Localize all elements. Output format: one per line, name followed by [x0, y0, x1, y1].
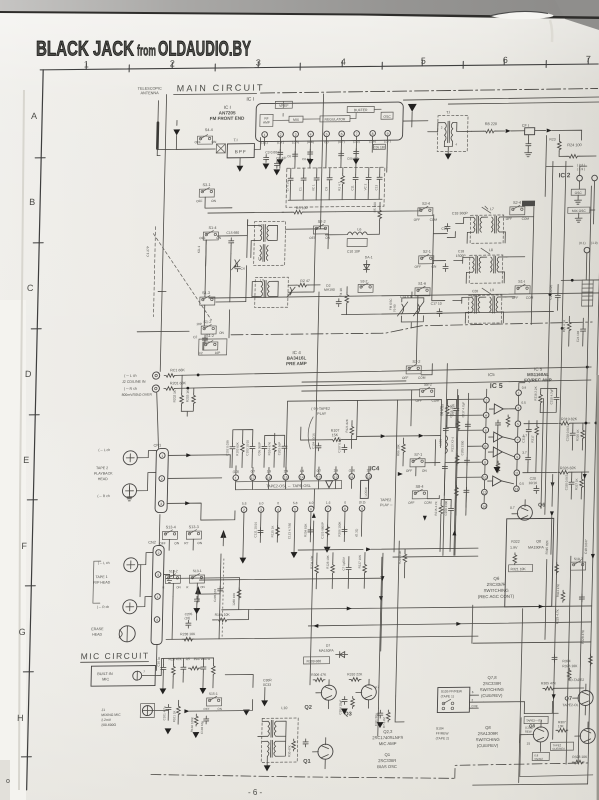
- svg-text:17: 17: [251, 476, 255, 480]
- svg-text:R96 10K: R96 10K: [396, 444, 400, 456]
- svg-text:R24 100: R24 100: [567, 143, 581, 147]
- svg-text:(0.31): (0.31): [354, 529, 358, 537]
- svg-text:TAPE2---IT3: TAPE2---IT3: [526, 718, 542, 722]
- dark page top edge: [0, 11, 599, 19]
- pin 8: [370, 131, 376, 137]
- wire CN1 to IC4: [167, 455, 236, 521]
- left ruler ticks + letters: [21, 158, 45, 757]
- svg-text:R8 220: R8 220: [485, 122, 497, 126]
- svg-text:Q1: Q1: [303, 759, 311, 765]
- svg-text:3: 3: [160, 502, 162, 506]
- wire L bus: [246, 220, 248, 302]
- svg-text:5: 5: [326, 132, 328, 136]
- svg-text:R310 22K: R310 22K: [347, 672, 363, 676]
- bold arrow up B: [220, 530, 226, 538]
- pin 6: [339, 131, 345, 137]
- svg-text:J1: J1: [101, 708, 105, 712]
- svg-text:2: 2: [170, 58, 175, 68]
- svg-text:4: 4: [156, 618, 158, 622]
- pin IC2 lower: [584, 247, 590, 253]
- svg-text:1: 1: [157, 595, 159, 599]
- svg-text:C320 0.047: C320 0.047: [564, 474, 568, 490]
- component cluster above IC4 row1: [225, 429, 287, 468]
- svg-text:R238 10K: R238 10K: [180, 632, 196, 636]
- svg-text:R234 10K: R234 10K: [310, 556, 314, 569]
- left column of IC5 inputs: [436, 363, 484, 555]
- svg-text:14: 14: [482, 505, 486, 509]
- svg-text:Q2,3: Q2,3: [383, 729, 393, 734]
- svg-text:C310 4.7µF: C310 4.7µF: [549, 388, 553, 404]
- cluster below row2: [239, 511, 362, 563]
- svg-text:ON: ON: [174, 541, 180, 545]
- svg-text:15K: 15K: [332, 433, 339, 437]
- svg-text:( 9 )-TAPE2: ( 9 )-TAPE2: [311, 407, 330, 411]
- svg-text:ON: ON: [176, 585, 181, 589]
- wire L-ch rail: [176, 367, 591, 375]
- svg-text:(TAPE 1): (TAPE 1): [441, 694, 454, 698]
- svg-text:ON: ON: [200, 585, 205, 589]
- extra arrows right rails: [552, 694, 556, 699]
- svg-text:OFF: OFF: [199, 236, 206, 240]
- svg-text:3: 3: [295, 133, 297, 137]
- svg-text:2.2mV: 2.2mV: [101, 718, 112, 722]
- enclosure around tape2 cue block: [520, 717, 594, 777]
- svg-text:AN7205: AN7205: [219, 110, 236, 115]
- svg-text:ANTENNA: ANTENNA: [141, 91, 160, 95]
- svg-text:R215 4.7K: R215 4.7K: [434, 501, 438, 515]
- svg-text:FF/REW: FF/REW: [436, 731, 450, 735]
- rail verticals: [378, 539, 547, 708]
- ground G1: [173, 129, 180, 135]
- svg-text:C311 50µ: C311 50µ: [374, 713, 378, 726]
- left band cluster y560-640: [172, 554, 242, 640]
- svg-text:13: 13: [515, 487, 519, 491]
- svg-text:OFF: OFF: [203, 707, 209, 711]
- svg-text:R?: R?: [184, 541, 188, 545]
- svg-text:HEAD: HEAD: [92, 633, 102, 637]
- svg-text:R320 1K: R320 1K: [576, 429, 580, 441]
- svg-text:SWITCHING: SWITCHING: [483, 588, 509, 593]
- svg-text:VREF: VREF: [279, 104, 289, 108]
- internal resistors: [506, 415, 510, 427]
- svg-text:IC I: IC I: [224, 105, 231, 110]
- svg-text:0.5: 0.5: [521, 401, 526, 405]
- pin stubs above IC5: [487, 383, 525, 397]
- svg-text:R203 1K: R203 1K: [186, 389, 190, 402]
- pin 2: [278, 131, 284, 137]
- svg-text:(REC AGC CONT): (REC AGC CONT): [478, 594, 515, 599]
- svg-text:R319 82K: R319 82K: [561, 417, 578, 421]
- SEC4: line-in band: [120, 322, 592, 476]
- svg-text:S2-2: S2-2: [318, 220, 326, 224]
- svg-text:800mV/50kΩ OVER: 800mV/50kΩ OVER: [122, 393, 153, 397]
- svg-text:C116 100: C116 100: [449, 404, 453, 417]
- svg-text:7: 7: [327, 507, 329, 511]
- svg-text:11: 11: [515, 471, 519, 475]
- J1 input network: [162, 700, 217, 739]
- OSC box IC2: [571, 189, 585, 195]
- telescopic antenna: [157, 101, 160, 123]
- main B+ vertical rail: [310, 94, 324, 685]
- svg-text:from: from: [137, 43, 156, 60]
- svg-text:R104 47K: R104 47K: [267, 442, 271, 455]
- trimmer CT6: [232, 260, 240, 270]
- svg-text:MIC: MIC: [102, 677, 109, 681]
- svg-text:8: 8: [372, 132, 374, 136]
- pin stub wires: [264, 136, 388, 168]
- svg-text:C7 0.01: C7 0.01: [285, 180, 289, 191]
- arrows down rail: [550, 482, 554, 487]
- svg-text:C1 27P: C1 27P: [146, 246, 150, 257]
- svg-text:6.0: 6.0: [309, 501, 314, 505]
- svg-text:(1.9): (1.9): [591, 241, 598, 245]
- wire IF row3: [432, 260, 463, 300]
- svg-text:C2: C2: [193, 335, 198, 339]
- svg-text:OFF: OFF: [196, 199, 203, 203]
- svg-text:IC I: IC I: [246, 97, 254, 103]
- svg-text:1.6: 1.6: [326, 501, 331, 505]
- vertical risers centre: [394, 295, 460, 556]
- svg-text:L7: L7: [490, 207, 494, 211]
- svg-text:IC 2: IC 2: [559, 172, 571, 179]
- svg-text:R3 100: R3 100: [296, 206, 308, 210]
- BPF box: [227, 144, 254, 158]
- svg-text:IC4: IC4: [370, 466, 380, 472]
- long vertical rails right side: [545, 161, 553, 514]
- svg-text:13: 13: [317, 475, 321, 479]
- schematic boundary chain line: [261, 89, 598, 94]
- svg-text:R23: R23: [549, 137, 555, 141]
- svg-text:TAPE2: TAPE2: [380, 498, 391, 502]
- svg-text:S2-1: S2-1: [423, 250, 431, 254]
- svg-text:OFF: OFF: [512, 296, 519, 300]
- svg-text:S7-1: S7-1: [414, 453, 422, 457]
- svg-text:COM: COM: [522, 217, 530, 221]
- svg-text:0: 0: [344, 501, 346, 505]
- svg-text:( 1.9 ): ( 1.9 ): [577, 167, 585, 171]
- svg-text:Q8: Q8: [485, 725, 491, 730]
- svg-text:R202 1K: R202 1K: [173, 389, 177, 402]
- svg-text:11: 11: [350, 475, 354, 479]
- svg-text:1: 1: [84, 59, 89, 69]
- svg-text:C18 360P: C18 360P: [452, 211, 469, 215]
- tape2 osc rail going left: [378, 696, 405, 736]
- svg-text:6: 6: [310, 507, 312, 511]
- vertical rail bottom right: [519, 609, 523, 783]
- wire IF row2: [433, 259, 463, 261]
- svg-text:14: 14: [300, 476, 304, 480]
- svg-text:G: G: [19, 627, 26, 637]
- label Q8 switching: [475, 725, 499, 748]
- SEC2: T1 / CF1 / IC2 row: [401, 97, 599, 226]
- svg-text:S13-4: S13-4: [166, 525, 176, 529]
- svg-text:7: 7: [356, 132, 358, 136]
- svg-text:L9: L9: [490, 288, 494, 292]
- IC1 package outline: [255, 102, 403, 142]
- svg-text:S4-4: S4-4: [205, 128, 213, 132]
- trimmer CT2: [287, 287, 295, 297]
- svg-text:Q7: Q7: [565, 696, 573, 702]
- svg-text:A: A: [31, 111, 37, 121]
- svg-text:Q6: Q6: [538, 502, 545, 508]
- svg-text:2SA1309R: 2SA1309R: [478, 731, 498, 736]
- svg-text:15: 15: [284, 476, 288, 480]
- svg-text:C? 1µ50V: C? 1µ50V: [342, 557, 346, 570]
- left page crease: [19, 90, 24, 790]
- svg-text:C18: C18: [458, 249, 464, 253]
- svg-text:ON: ON: [211, 199, 217, 203]
- svg-text:3: 3: [260, 508, 262, 512]
- wire bottom rails: [298, 548, 363, 551]
- svg-text:( ─ R ch: ( ─ R ch: [124, 387, 137, 391]
- svg-text:MIC CIRCUIT: MIC CIRCUIT: [81, 651, 150, 662]
- op-amp A1: [494, 404, 503, 414]
- svg-text:C10: C10: [441, 227, 447, 231]
- svg-text:5: 5: [294, 508, 296, 512]
- svg-text:2SC33IIR: 2SC33IIR: [378, 758, 396, 763]
- wire FM detector rail: [209, 293, 599, 298]
- svg-text:( ─ L ch: ( ─ L ch: [124, 374, 136, 378]
- L7 primary: [473, 216, 481, 233]
- supply rails: [222, 606, 592, 610]
- svg-text:C05 180: C05 180: [347, 157, 359, 161]
- svg-text:RC1 68K: RC1 68K: [170, 368, 185, 372]
- IC4 pin stubs: [235, 464, 369, 489]
- svg-text:10: 10: [367, 475, 371, 479]
- svg-text:2: 2: [161, 477, 163, 481]
- capacitor C6: [336, 299, 341, 307]
- svg-text:( ─ R ch: ( ─ R ch: [97, 605, 110, 609]
- svg-text:R315 82K: R315 82K: [545, 539, 549, 554]
- svg-text:C313: C313: [521, 435, 525, 443]
- op-amp A4: [493, 476, 502, 486]
- boxed label TAPE2 CUE/REV: [550, 742, 573, 750]
- svg-text:8: 8: [484, 461, 486, 465]
- svg-text:1: 1: [518, 391, 520, 395]
- svg-text:DA-1: DA-1: [365, 255, 373, 259]
- bias cluster between Q2 Q3: [338, 696, 391, 729]
- svg-text:2: 2: [243, 508, 245, 512]
- IC2 hatched block: [582, 280, 594, 306]
- svg-text:R321 10K: R321 10K: [511, 567, 527, 571]
- svg-text:MIC AMP: MIC AMP: [379, 741, 397, 746]
- label Q2,3 mic amp: [372, 729, 404, 746]
- svg-text:3.7: 3.7: [522, 451, 527, 455]
- svg-text:REGULATOR: REGULATOR: [325, 117, 346, 121]
- transistor Q9 edge: [580, 728, 595, 743]
- svg-text:CN2: CN2: [148, 541, 156, 545]
- BUFFER box: [347, 106, 374, 112]
- RF AMP box: [260, 114, 273, 126]
- svg-text:R30 47K: R30 47K: [287, 745, 291, 757]
- svg-text:C18 0.047: C18 0.047: [584, 539, 588, 554]
- svg-text:0: 0: [277, 501, 279, 505]
- svg-text:T.I: T.I: [446, 111, 450, 115]
- page right edge shadow: [597, 375, 599, 800]
- L9 secondary: [489, 296, 497, 313]
- wire row1: [217, 229, 325, 236]
- svg-text:BUFFER: BUFFER: [354, 108, 368, 112]
- mid band resistor cluster y560: [309, 552, 367, 589]
- svg-text:R304: R304: [562, 659, 570, 663]
- svg-text:R107: R107: [331, 429, 340, 433]
- svg-text:9: 9: [361, 507, 363, 511]
- svg-text:Q2: Q2: [304, 705, 312, 711]
- svg-text:S1-6: S1-6: [418, 282, 426, 286]
- op-amp A2: [494, 432, 503, 442]
- IC4 pin row 2: [241, 500, 365, 512]
- svg-text:R327 1K: R327 1K: [574, 478, 578, 490]
- label Q1 bias osc: [377, 752, 397, 769]
- svg-text:CF I: CF I: [522, 124, 529, 128]
- pin 3: [293, 131, 299, 137]
- svg-text:9: 9: [516, 455, 518, 459]
- svg-text:S3-2: S3-2: [360, 279, 367, 283]
- right column extra labels: [543, 539, 588, 645]
- L7 secondary: [491, 216, 499, 233]
- svg-text:R/P HEAD: R/P HEAD: [93, 581, 110, 585]
- svg-text:FM FRONT END: FM FRONT END: [210, 116, 245, 121]
- vertical rail x552: [541, 399, 544, 509]
- pin 9: [385, 130, 391, 136]
- svg-text:S1-3: S1-3: [202, 291, 210, 295]
- svg-text:PLAY ─: PLAY ─: [380, 503, 393, 507]
- svg-text:COM: COM: [418, 376, 426, 380]
- right cluster R215/C209: [433, 499, 454, 551]
- svg-text:AMP: AMP: [263, 120, 270, 124]
- svg-text:R309 680: R309 680: [306, 659, 321, 663]
- svg-text:( ─ L ch: ( ─ L ch: [98, 448, 110, 452]
- svg-text:ON: ON: [422, 469, 428, 473]
- svg-text:R103 82K: R103 82K: [235, 442, 239, 455]
- svg-text:BPF: BPF: [235, 149, 247, 154]
- svg-text:S3-1: S3-1: [202, 183, 210, 187]
- SEC5: IC4 preamp area: [90, 399, 482, 654]
- svg-text:C6: C6: [287, 154, 291, 158]
- svg-text:( ─ R ch: ( ─ R ch: [97, 494, 110, 498]
- L8 primary: [472, 256, 480, 273]
- svg-text:R326 10K: R326 10K: [562, 664, 578, 668]
- svg-text:C9: C9: [324, 187, 328, 191]
- svg-text:C05 180: C05 180: [374, 145, 386, 149]
- svg-text:CN1: CN1: [153, 444, 161, 448]
- svg-text:C209 3300: C209 3300: [460, 440, 464, 455]
- svg-text:C205 103: C205 103: [213, 589, 217, 602]
- svg-text:16: 16: [267, 476, 271, 480]
- svg-text:HEAD: HEAD: [98, 477, 108, 481]
- svg-text:C20: C20: [530, 477, 536, 481]
- svg-text:10K: 10K: [558, 724, 565, 728]
- svg-text:S3-4: S3-4: [422, 202, 430, 206]
- svg-text:PLAYBACK: PLAYBACK: [94, 472, 113, 476]
- SEC1: top centre: [135, 79, 598, 216]
- pin IC2-b: [592, 175, 598, 181]
- internal links: [273, 100, 381, 120]
- svg-text:IC 4: IC 4: [292, 350, 301, 355]
- wire CF1 out: [535, 130, 546, 132]
- wire IF row1: [433, 214, 464, 260]
- svg-text:S8-4: S8-4: [415, 485, 423, 489]
- svg-text:SWITCHING: SWITCHING: [480, 687, 504, 692]
- svg-text:6: 6: [341, 132, 343, 136]
- pin 5: [324, 131, 330, 137]
- IC5 spine wires: [484, 396, 518, 503]
- pin voltage labels: [261, 139, 391, 144]
- tuning network dashed enclosure: [286, 167, 385, 207]
- svg-text:TAPE2: TAPE2: [534, 757, 543, 761]
- svg-text:C2: C2: [199, 351, 203, 355]
- svg-text:R121 82K: R121 82K: [345, 419, 349, 432]
- IC5 right pins: [514, 390, 522, 492]
- svg-text:Q1: Q1: [385, 752, 391, 757]
- label Q6 switching: [478, 576, 515, 599]
- svg-text:OSC: OSC: [383, 115, 391, 119]
- svg-text:1: 1: [264, 133, 266, 137]
- svg-text:SWITCHING: SWITCHING: [476, 737, 500, 742]
- scanner top strip: [0, 0, 1, 1]
- svg-text:0.5: 0.5: [520, 482, 525, 486]
- svg-text:C4: C4: [241, 267, 245, 271]
- mic components cluster: [156, 656, 216, 695]
- svg-text:R102 100K: R102 100K: [190, 717, 194, 732]
- wire CN2 rail down: [172, 596, 197, 639]
- svg-text:C101 4.7µ: C101 4.7µ: [162, 706, 166, 720]
- svg-text:BLACK JACK: BLACK JACK: [36, 38, 134, 61]
- svg-text:1: 1: [235, 476, 237, 480]
- svg-text:4: 4: [277, 508, 279, 512]
- wire R-ch rail: [176, 380, 591, 388]
- OSC box: [381, 112, 393, 119]
- wire antenna to switch: [176, 148, 197, 150]
- svg-text:R326 82K: R326 82K: [560, 466, 577, 470]
- svg-text:J2 CD/LINE IN: J2 CD/LINE IN: [122, 380, 146, 384]
- svg-text:OFF: OFF: [309, 236, 316, 240]
- svg-text:(0.1): (0.1): [579, 241, 586, 245]
- svg-text:( ─ L ch: ( ─ L ch: [98, 561, 110, 565]
- pin 7: [354, 131, 360, 137]
- svg-text:ON: ON: [211, 140, 217, 144]
- svg-text:4.7: 4.7: [375, 685, 380, 689]
- svg-text:R125 1K: R125 1K: [270, 526, 274, 538]
- bold arrow up A: [195, 586, 201, 594]
- pin 1: [262, 132, 268, 138]
- dashed link line centre bottom: [222, 559, 224, 639]
- svg-text:C13: C13: [374, 184, 378, 190]
- svg-text:6.0: 6.0: [259, 501, 264, 505]
- svg-text:C102 0.039: C102 0.039: [225, 440, 229, 456]
- svg-text:(CUE/REV): (CUE/REV): [481, 693, 503, 698]
- svg-text:C: C: [27, 283, 34, 293]
- left frame vertical wire: [160, 95, 166, 372]
- svg-text:o: o: [6, 778, 10, 785]
- svg-text:PRE AMP: PRE AMP: [286, 361, 307, 366]
- wire pin9 to T1 row: [387, 121, 428, 172]
- svg-text:1288 10K: 1288 10K: [232, 593, 236, 606]
- pin IC2-a: [577, 175, 583, 181]
- op-amp A3: [493, 447, 502, 457]
- REGULATOR box: [320, 116, 350, 122]
- wire R326 rail: [523, 471, 557, 473]
- svg-text:5: 5: [517, 422, 519, 426]
- switch box S105: [437, 687, 470, 712]
- VREF box: [275, 101, 292, 108]
- svg-text:D: D: [25, 369, 32, 379]
- svg-text:4: 4: [341, 57, 346, 67]
- rec triangle: [326, 481, 333, 488]
- junction arrows: [398, 472, 403, 476]
- IC5 right stack: [521, 421, 539, 473]
- svg-text:IC 5: IC 5: [490, 383, 503, 390]
